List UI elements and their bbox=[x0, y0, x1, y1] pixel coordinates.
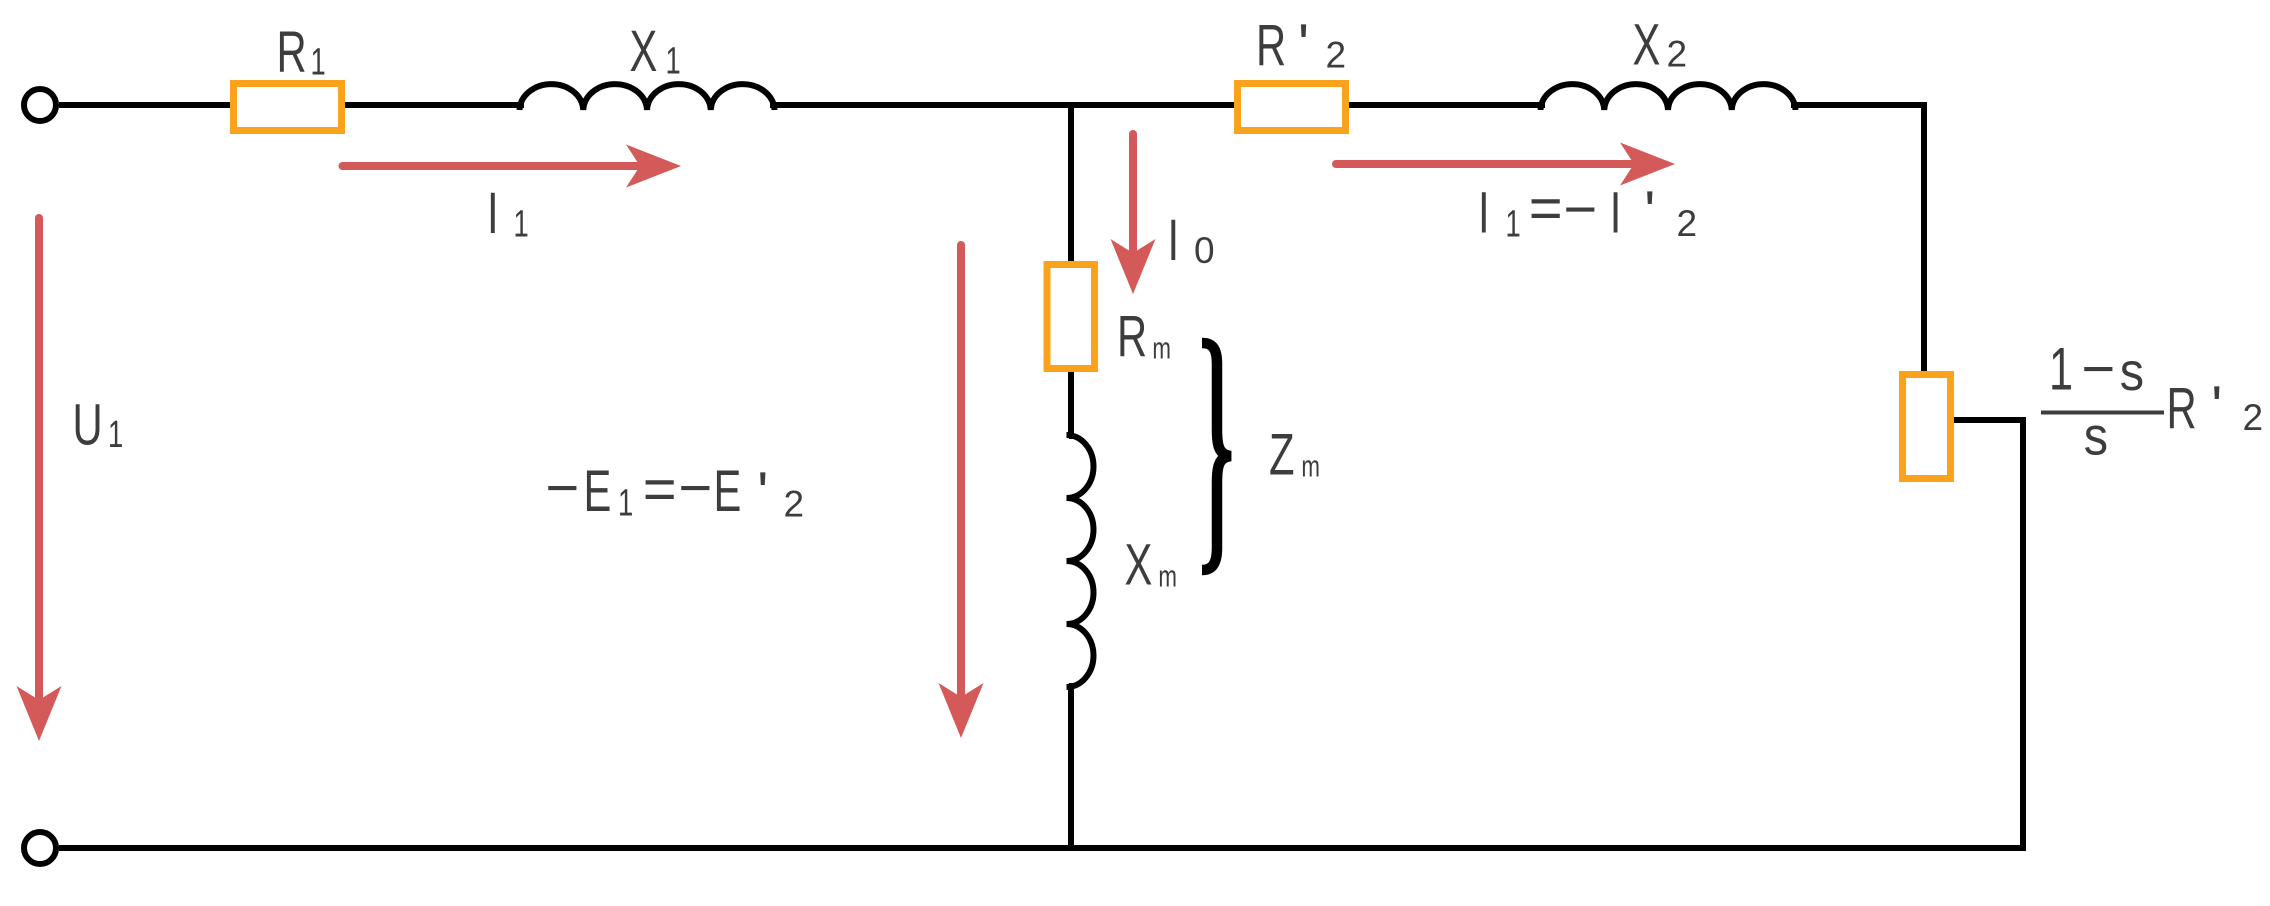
svg-text:R: R bbox=[277, 19, 307, 84]
svg-text:2: 2 bbox=[1667, 33, 1688, 74]
svg-text:−: − bbox=[545, 456, 579, 521]
svg-text:1: 1 bbox=[514, 203, 529, 245]
svg-text:X: X bbox=[1633, 12, 1661, 77]
svg-text:Z: Z bbox=[1269, 422, 1295, 487]
svg-text:m: m bbox=[1152, 331, 1171, 365]
svg-text:−: − bbox=[1563, 177, 1597, 242]
svg-text:X: X bbox=[1125, 532, 1153, 597]
svg-text:I: I bbox=[1168, 207, 1180, 272]
svg-text:R: R bbox=[2167, 375, 2197, 440]
svg-text:R: R bbox=[1256, 12, 1286, 77]
svg-text:I: I bbox=[1610, 180, 1622, 245]
svg-text:R: R bbox=[1117, 303, 1147, 368]
svg-text:m: m bbox=[1301, 449, 1320, 483]
svg-text:1: 1 bbox=[618, 482, 633, 524]
svg-text:E: E bbox=[584, 458, 612, 523]
svg-text:m: m bbox=[1158, 559, 1177, 593]
svg-text:1: 1 bbox=[2049, 337, 2073, 404]
svg-text:1: 1 bbox=[1506, 203, 1521, 245]
svg-text:2: 2 bbox=[1677, 203, 1698, 244]
svg-text:=: = bbox=[643, 457, 677, 522]
svg-text:−: − bbox=[678, 456, 712, 521]
svg-text:U: U bbox=[73, 392, 103, 457]
svg-text:2: 2 bbox=[2243, 397, 2264, 438]
svg-text:X: X bbox=[630, 18, 658, 83]
svg-text:s: s bbox=[2120, 341, 2144, 402]
svg-text:': ' bbox=[757, 460, 768, 525]
svg-text:2: 2 bbox=[784, 483, 805, 524]
svg-text:0: 0 bbox=[1194, 230, 1215, 271]
svg-text:': ' bbox=[2211, 375, 2222, 440]
svg-text:1: 1 bbox=[666, 40, 681, 82]
svg-text:−: − bbox=[2081, 336, 2115, 401]
svg-text:1: 1 bbox=[108, 414, 123, 456]
svg-text:': ' bbox=[1298, 13, 1309, 78]
svg-text:E: E bbox=[714, 458, 742, 523]
svg-text:=: = bbox=[1529, 176, 1563, 241]
svg-text:1: 1 bbox=[311, 41, 326, 83]
svg-text:I: I bbox=[1478, 180, 1490, 245]
svg-text:I: I bbox=[487, 180, 499, 245]
svg-text:': ' bbox=[1644, 180, 1655, 245]
svg-text:2: 2 bbox=[1326, 35, 1347, 76]
